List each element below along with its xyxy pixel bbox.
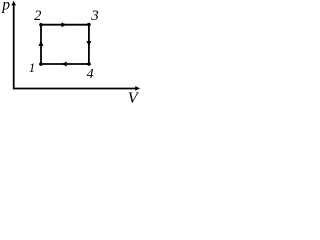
svg-text:1: 1 <box>29 60 36 75</box>
node state point 1 <box>39 62 43 66</box>
wire process 1-2 (left edge, isochoric rise) <box>38 25 43 64</box>
node state point 4 <box>87 62 91 66</box>
V axis <box>13 86 140 91</box>
svg-text:V: V <box>128 90 140 103</box>
p axis <box>11 1 16 90</box>
wire process 4-1 (bottom edge, isobaric compression) <box>41 62 89 67</box>
svg-text:p: p <box>1 0 10 13</box>
node state point 2 <box>39 23 43 27</box>
wire process 2-3 (top edge, isobaric expansion) <box>41 22 89 27</box>
svg-text:2: 2 <box>34 8 41 24</box>
wire process 3-4 (right edge, isochoric drop) <box>86 25 91 65</box>
node state point 3 <box>87 23 91 27</box>
svg-text:4: 4 <box>87 67 94 82</box>
svg-text:3: 3 <box>90 8 99 24</box>
